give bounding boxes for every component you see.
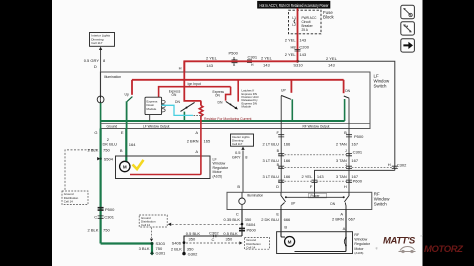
svg-text:(A106): (A106) — [354, 251, 363, 255]
svg-text:M: M — [288, 240, 292, 245]
label Express ON (left) — [169, 90, 181, 98]
svg-text:2 YEL: 2 YEL — [261, 55, 273, 60]
svg-text:L2: L2 — [292, 23, 296, 27]
svg-text:G: G — [94, 130, 97, 135]
svg-text:G301: G301 — [156, 250, 167, 255]
svg-text:666: 666 — [284, 217, 291, 222]
svg-text:Cell 14: Cell 14 — [64, 199, 73, 203]
interior lights dimming cell box (top left) — [90, 33, 115, 47]
svg-text:143: 143 — [299, 38, 306, 43]
svg-text:3 BLK: 3 BLK — [139, 246, 150, 251]
svg-text:0.35 BLK: 0.35 BLK — [224, 217, 241, 222]
dashed link S406 to ground distribution cell (right) — [186, 241, 243, 244]
switch blade RF UP — [281, 95, 291, 99]
ground G302 — [182, 252, 198, 257]
wire: 2 LT BLU 166 pin F to RF switch pin D — [280, 135, 282, 192]
switch blade express DN with arrow — [226, 101, 238, 109]
label 2 DK BLU 164 — [103, 137, 137, 147]
svg-text:2 BLK: 2 BLK — [171, 246, 182, 251]
label 2 BLK 750 (upper) — [87, 147, 110, 152]
sense line from module (light blue) — [162, 105, 194, 115]
connector P600 on blk wire — [239, 227, 257, 232]
label 3 LT BLU 166 (lower) — [262, 174, 291, 179]
svg-text:P600: P600 — [247, 227, 257, 232]
label 3 BLK 750 — [139, 246, 163, 251]
svg-text:C301: C301 — [353, 149, 363, 154]
svg-text:GRY: GRY — [232, 155, 241, 160]
svg-text:C: C — [212, 237, 215, 242]
green ground / output bus inside LF switch — [101, 120, 345, 122]
svg-text:B: B — [284, 225, 287, 230]
svg-text:B: B — [344, 130, 347, 135]
label 2 YEL 143 (to pin F) — [301, 174, 324, 179]
svg-text:(A105): (A105) — [213, 174, 223, 178]
svg-text:750: 750 — [103, 227, 110, 232]
svg-text:DN: DN — [175, 100, 180, 104]
svg-text:Illumination: Illumination — [104, 75, 121, 79]
label 2 BRN 165 — [187, 138, 211, 143]
svg-text:2 BLK: 2 BLK — [87, 227, 98, 232]
connector C301 dashed row — [278, 154, 352, 156]
svg-text:2 BRN: 2 BRN — [187, 138, 199, 143]
svg-text:Block: Block — [323, 15, 335, 20]
diagram white page — [52, 0, 423, 266]
svg-text:750: 750 — [103, 147, 110, 152]
svg-text:2 DK BLU: 2 DK BLU — [261, 217, 279, 222]
svg-text:2 YEL: 2 YEL — [326, 56, 338, 61]
dashed arrow from cell to S303 — [151, 228, 153, 239]
svg-text:C: C — [94, 214, 97, 219]
svg-text:A: A — [195, 130, 198, 135]
label Power (boxed) — [309, 193, 327, 198]
red ignition bus inside LF switch — [132, 79, 344, 81]
svg-text:MATT'S: MATT'S — [383, 236, 416, 247]
svg-text:164: 164 — [129, 142, 136, 147]
svg-text:Ign Input: Ign Input — [188, 82, 201, 86]
svg-text:C200: C200 — [299, 45, 309, 50]
yellow check mark — [133, 160, 144, 169]
svg-text:™: ™ — [420, 235, 423, 239]
svg-text:H: H — [388, 162, 391, 167]
label 2 LT BLU 166 — [262, 142, 291, 147]
svg-text:ON: ON — [215, 94, 220, 98]
wire: pin F output (thin) — [280, 96, 282, 135]
wire: pin B output (thin) — [348, 98, 350, 135]
svg-text:2 TAN: 2 TAN — [336, 142, 347, 147]
svg-text:350: 350 — [189, 237, 196, 242]
svg-text:C302: C302 — [397, 162, 407, 167]
wire: express feed step (red) — [226, 87, 231, 101]
switch blade LF DN with pivot dot — [181, 102, 195, 111]
svg-text:P500: P500 — [354, 134, 364, 139]
svg-text:DN: DN — [218, 100, 223, 104]
connector P500 on ground wire — [98, 207, 116, 212]
RF motor M symbol — [285, 237, 295, 247]
svg-text:A: A — [195, 149, 198, 154]
connector C302 dashed row — [278, 166, 398, 168]
wire: DN wiper to green bus — [183, 112, 185, 121]
ground distribution cell box (middle) — [139, 215, 167, 227]
svg-text:Cell 117: Cell 117 — [91, 41, 102, 45]
wire: 2 TAN 167 pin B to RF switch pin H — [348, 135, 350, 192]
banner: Hot In ACCY RUN Or Retained Accessory Power — [258, 1, 331, 9]
LF window regulator motor box — [116, 156, 229, 179]
label 2 TAN 167 — [336, 142, 359, 147]
svg-text:2 YEL: 2 YEL — [285, 52, 297, 57]
wire: 0.5 BLK 350 across to S406 — [184, 236, 242, 253]
wire: 2 BRN 667 pin A to RF motor — [295, 210, 347, 252]
wire: module ground — [149, 115, 151, 121]
svg-text:S604: S604 — [246, 222, 256, 227]
label Express ON (middle) — [213, 90, 225, 98]
fuse block dashed box — [289, 10, 335, 34]
wire: express latch drop (red) — [237, 80, 239, 102]
svg-text:DN: DN — [330, 202, 335, 206]
svg-text:E: E — [121, 130, 124, 135]
dashed leader to resistor label — [194, 115, 203, 117]
ground distribution cell box (right) — [245, 237, 270, 249]
svg-text:143: 143 — [328, 62, 335, 67]
svg-text:166: 166 — [284, 174, 291, 179]
svg-text:Up: Up — [125, 93, 129, 97]
switch blade RF switch DN — [344, 192, 349, 209]
toolbar button: next arrow — [401, 39, 415, 52]
svg-text:0.5 BLK: 0.5 BLK — [186, 231, 201, 236]
connector C301 pin C on ground wire — [94, 214, 114, 219]
label block: Latches If Express DN Position Until Released by Express DN Module — [242, 89, 259, 109]
svg-text:J: J — [345, 149, 347, 153]
pins B and J at C301 — [277, 149, 363, 154]
svg-text:H: H — [344, 184, 347, 189]
svg-text:3 LT BLU: 3 LT BLU — [262, 174, 279, 179]
svg-text:Cell 14: Cell 14 — [141, 223, 150, 227]
svg-text:G302: G302 — [188, 252, 199, 257]
ground distribution cell box (left) — [62, 191, 88, 205]
label 2 YEL 143 (lower) — [285, 52, 307, 57]
connector P600 dashed row — [278, 179, 363, 184]
label 3 TAN 167 (lower) — [336, 174, 359, 179]
wire: Up wiper to output bus / pin E (green) — [126, 101, 128, 128]
wire: module power feed (red) — [159, 87, 231, 98]
label 3 TAN 167 — [336, 158, 359, 163]
svg-text:C301: C301 — [248, 55, 258, 60]
svg-text:165: 165 — [204, 138, 211, 143]
dashed link to ground distribution cell — [65, 150, 97, 191]
wire: 0.5 GRY 8 to dimming cell with arrow — [99, 47, 102, 72]
svg-text:P500: P500 — [105, 207, 115, 212]
switch blade RF switch UP — [281, 192, 286, 209]
connector C302 on blk wire — [186, 230, 238, 242]
svg-text:0.5 BLK: 0.5 BLK — [223, 231, 238, 236]
wire: red motor feed inside LF motor box — [130, 156, 201, 175]
svg-text:RF Window Output: RF Window Output — [303, 125, 330, 129]
connector P500 pin B on yel wire — [229, 51, 239, 68]
toolbar button: measure — [401, 5, 415, 18]
svg-text:143: 143 — [206, 63, 213, 68]
splice S604 — [241, 222, 256, 227]
ground G301 — [150, 250, 166, 255]
switch blade LF Up — [127, 97, 132, 102]
svg-text:Module: Module — [147, 107, 157, 111]
label 2 YEL 143 left segment — [206, 55, 218, 68]
RF Window Switch box — [227, 192, 390, 210]
wire: lamp feed from pin D — [100, 72, 102, 96]
wire: red drop to Up contact — [131, 80, 133, 95]
label 0.35 BLK 350 — [224, 217, 253, 222]
svg-text:2 LT BLU: 2 LT BLU — [262, 142, 279, 147]
svg-text:S406: S406 — [172, 241, 182, 246]
svg-text:H8: H8 — [290, 45, 296, 50]
wire: red 2 YEL from S310 to LF switch pin H — [184, 61, 297, 72]
wire: 2 YEL 143 into RF switch pin F — [315, 170, 395, 192]
svg-text:2 YEL: 2 YEL — [301, 174, 313, 179]
svg-text:167: 167 — [351, 142, 358, 147]
wire: red DN feed down + across + motor drive output pin A — [184, 61, 201, 105]
svg-text:B: B — [120, 148, 123, 153]
LF Window Switch box — [100, 72, 390, 129]
svg-text:Hot In ACCY, RUN Or Retained A: Hot In ACCY, RUN Or Retained Accessory P… — [260, 3, 329, 9]
label 2 YEL 143 near S310 — [261, 55, 273, 67]
label 2 DK BLU 666 — [261, 217, 291, 222]
svg-text:166: 166 — [284, 158, 291, 163]
svg-text:UP: UP — [281, 88, 286, 92]
connector C301 pin H on yel wire — [247, 55, 258, 68]
svg-text:H: H — [179, 65, 182, 70]
wire: 0.35 BLK 350 from pin C — [241, 210, 243, 237]
toolbar button: zoom arrows — [401, 22, 415, 35]
svg-text:P500: P500 — [229, 51, 239, 56]
svg-text:166: 166 — [284, 142, 291, 147]
connector P500 ticks on F and B wires — [278, 134, 364, 139]
svg-text:S310: S310 — [293, 63, 303, 68]
svg-text:3 TAN: 3 TAN — [336, 174, 347, 179]
circuit breaker PWR ACC 25A — [292, 16, 317, 32]
pin H and C302 on yel wire — [388, 162, 407, 167]
illumination lamp LF — [97, 96, 104, 103]
splice S504 — [97, 157, 114, 162]
wire: RF up wiper green to bus — [291, 99, 293, 121]
splice S406 — [172, 241, 186, 246]
label 2 BLK 750 (lower) — [87, 227, 110, 232]
svg-text:C302: C302 — [209, 230, 219, 235]
svg-text:143: 143 — [263, 63, 270, 68]
wire: 2 BLK 750 ground from pin G (green) — [99, 129, 101, 244]
svg-text:P600: P600 — [353, 179, 363, 184]
svg-text:M: M — [123, 165, 127, 170]
svg-text:Illumination: Illumination — [247, 194, 263, 198]
svg-text:UP: UP — [291, 202, 296, 206]
label 0.5 GRY 8 — [84, 58, 106, 63]
svg-text:Switch: Switch — [374, 84, 387, 89]
svg-text:350: 350 — [226, 237, 233, 242]
svg-text:ON: ON — [172, 93, 177, 97]
wire: 2 YEL 143 feed from fuse block (red) — [297, 8, 299, 61]
port label strip line — [100, 122, 370, 124]
svg-text:C301: C301 — [104, 215, 114, 220]
watermark car sketch — [399, 247, 416, 253]
express down module — [145, 97, 165, 114]
svg-text:25 A: 25 A — [302, 28, 309, 32]
svg-text:143: 143 — [317, 174, 324, 179]
svg-text:0.5 GRY: 0.5 GRY — [84, 58, 100, 63]
wire: ground run to G301 (green) — [101, 244, 152, 253]
LF motor M symbol — [120, 161, 130, 171]
svg-text:Switch: Switch — [374, 202, 387, 207]
svg-text:D: D — [94, 64, 97, 69]
connector C200 pin H8 — [290, 45, 309, 51]
svg-text:667: 667 — [348, 216, 355, 221]
wire: RF dn wiper green to bus — [344, 99, 346, 121]
label 3 LT BLU 166 — [262, 158, 291, 163]
svg-text:Module: Module — [242, 105, 252, 109]
wire: red drop to RF DN contact — [343, 80, 345, 93]
svg-text:143: 143 — [299, 52, 306, 57]
resistor for monitoring current (red zigzag in wire) — [199, 106, 203, 156]
svg-text:Cell 117: Cell 117 — [232, 142, 243, 146]
svg-text:Resistor For Monitoring Curren: Resistor For Monitoring Current — [204, 117, 252, 121]
svg-text:Ground: Ground — [107, 125, 118, 129]
label 2 BRN 667 — [332, 216, 356, 221]
svg-text:Window: Window — [354, 238, 367, 242]
wire: 2 DK BLU 164 pin E to LF motor (green) — [125, 129, 127, 162]
label 0.5 GRY 8 — [232, 150, 248, 160]
wire: 2 DK BLU 666 pin E to RF motor — [281, 210, 285, 238]
wire: red drop to RF UP contact — [290, 80, 292, 93]
interior lights dimming cell box (middle) — [231, 134, 254, 146]
RF window regulator motor box — [277, 232, 371, 255]
svg-text:S504: S504 — [104, 157, 114, 162]
splice S310 — [293, 60, 303, 68]
switch blade RF DN — [344, 96, 349, 98]
svg-text:2 YEL: 2 YEL — [285, 38, 297, 43]
svg-text:Regulator: Regulator — [354, 242, 370, 246]
label 2 BLK 350 — [171, 246, 194, 251]
wire: 2 YEL 143 from S310 right to RF circuit (black) — [298, 61, 395, 170]
splice S303 — [151, 241, 166, 246]
label 2 YEL 143 right segment — [326, 56, 338, 68]
svg-text:DK BLU: DK BLU — [103, 141, 118, 146]
svg-text:LF Window Output: LF Window Output — [143, 125, 170, 129]
svg-text:L1: L1 — [292, 16, 296, 20]
label 2 YEL 143 (upper) — [285, 38, 307, 43]
svg-text:Cell 14: Cell 14 — [246, 245, 255, 249]
pins B and J at C302 — [277, 163, 347, 167]
svg-text:MOTORZ: MOTORZ — [424, 244, 464, 255]
dashed leader from S604 to ground distribution cell — [172, 223, 241, 225]
wire: 0.5 GRY 8 dimming feed to RF switch pin B with arrow — [241, 147, 244, 193]
svg-text:2 BRN: 2 BRN — [332, 216, 344, 221]
svg-text:167: 167 — [351, 158, 358, 163]
svg-text:RF: RF — [354, 233, 360, 237]
RF power bus — [285, 192, 345, 198]
svg-text:2 YEL: 2 YEL — [206, 55, 218, 60]
svg-text:D: D — [276, 184, 279, 189]
wire: lamp to ground bus (green) — [100, 103, 102, 129]
svg-text:DN: DN — [345, 89, 350, 93]
svg-text:B: B — [237, 184, 240, 189]
illumination lamp RF — [239, 192, 245, 209]
svg-text:A: A — [343, 226, 346, 231]
RF motor terminal arc — [344, 238, 346, 246]
